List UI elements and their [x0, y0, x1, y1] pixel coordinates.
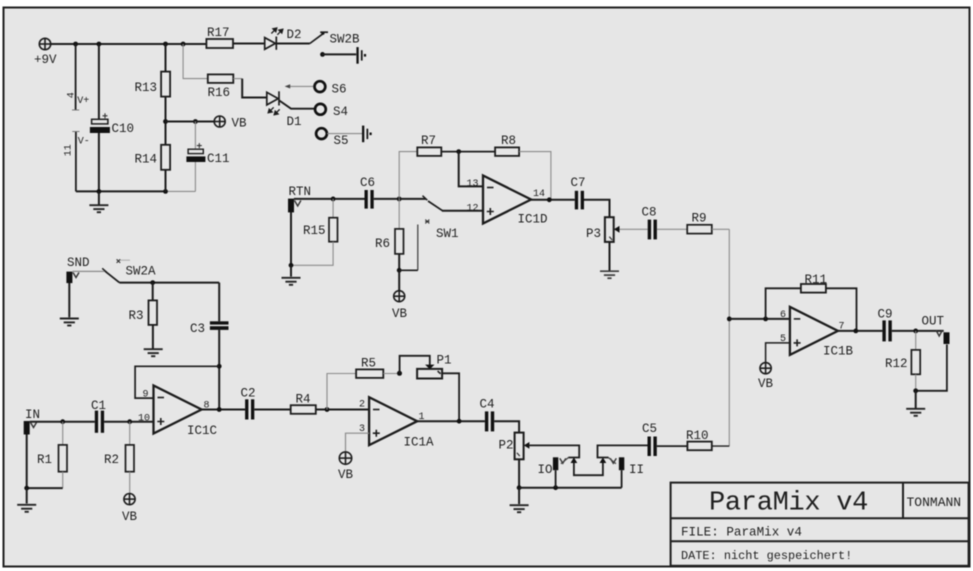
- svg-text:IC1B: IC1B: [823, 345, 854, 359]
- wire R17 to D2: [233, 43, 265, 45]
- switch SW2B: [310, 32, 328, 44]
- wire pin14 out: [531, 199, 575, 201]
- wire P1 to output node: [442, 373, 459, 421]
- S6 leaf arrowhead: [285, 84, 291, 88]
- wire RTN to C6: [294, 198, 365, 200]
- svg-text:R16: R16: [208, 86, 231, 100]
- supply VB (IC1C stage): [124, 494, 135, 505]
- C10 plus mark: [103, 113, 108, 118]
- svg-text:14: 14: [533, 189, 545, 200]
- node junction R5-P1: [397, 371, 402, 376]
- jack II pin: [619, 457, 624, 470]
- supply VB (IC1A stage): [339, 452, 351, 464]
- jack link staple with arrows: [574, 462, 603, 476]
- wire R1 top thin: [62, 422, 64, 445]
- svg-text:OUT: OUT: [922, 315, 945, 329]
- svg-text:IN: IN: [25, 408, 40, 422]
- wire R8 to pin14 thin: [519, 152, 551, 200]
- wire C11 top thin: [194, 122, 196, 150]
- resistor R8: [495, 147, 519, 156]
- node junction bus-IC1B: [727, 317, 732, 322]
- svg-text:P3: P3: [586, 227, 601, 241]
- wire pin1 out: [417, 420, 485, 422]
- svg-text:VB: VB: [122, 510, 138, 524]
- resistor R17: [206, 39, 233, 48]
- svg-text:P2: P2: [499, 439, 514, 453]
- II switch leaf: [609, 458, 616, 464]
- svg-text:DATE: nicht gespeichert!: DATE: nicht gespeichert!: [681, 549, 852, 563]
- node junction VB: [163, 119, 168, 124]
- svg-text:R3: R3: [129, 309, 144, 323]
- wire II branch: [598, 445, 648, 457]
- svg-text:R4: R4: [296, 393, 311, 407]
- svg-text:R15: R15: [303, 224, 326, 238]
- svg-text:C2: C2: [241, 387, 256, 401]
- wire R3 top: [152, 283, 154, 301]
- wire SW1 throw to node: [399, 269, 418, 271]
- capacitor C1: [95, 411, 104, 433]
- wire P2 bottom: [518, 459, 520, 487]
- wire pin12 net: [442, 210, 483, 212]
- ground at R3: [144, 349, 163, 356]
- capacitor C7: [575, 191, 584, 210]
- wire OUT pin down: [916, 345, 947, 391]
- P1 wiper arrowhead: [425, 365, 434, 370]
- svg-text:SW1: SW1: [436, 227, 459, 241]
- wire R16 to D1: [242, 79, 267, 98]
- svg-text:C9: C9: [878, 308, 893, 322]
- svg-text:V+: V+: [77, 96, 89, 107]
- op-amp IC1B: [790, 307, 838, 355]
- svg-text:IC1D: IC1D: [518, 213, 548, 227]
- svg-text:12: 12: [467, 204, 479, 215]
- node junction rail-R13: [163, 42, 168, 47]
- svg-text:C8: C8: [642, 206, 657, 220]
- svg-text:6: 6: [780, 310, 786, 321]
- node junction RTN-R15: [331, 197, 336, 202]
- svg-text:VB: VB: [232, 117, 248, 131]
- ground at OUT: [906, 391, 925, 416]
- IC1A minus mark: [373, 409, 380, 411]
- wire R2 top thin: [129, 422, 131, 445]
- wire V- pin stub: [75, 132, 77, 192]
- wire D1 leaf to S4: [279, 101, 315, 109]
- svg-text:S6: S6: [332, 83, 347, 97]
- wire C8 to R9 thin: [657, 228, 687, 230]
- wire SND pin down: [68, 283, 70, 317]
- wire P3 bottom: [609, 242, 611, 271]
- svg-text:D1: D1: [287, 115, 302, 129]
- potentiometer P1: [417, 369, 442, 379]
- svg-text:R9: R9: [692, 212, 707, 226]
- wire C6 to SW1 node: [374, 198, 400, 200]
- node junction C6-R6-R7: [397, 197, 402, 202]
- svg-text:SW2B: SW2B: [330, 33, 361, 47]
- resistor R15: [329, 218, 338, 242]
- SND pin arrow: [73, 273, 79, 278]
- svg-text:IC1C: IC1C: [187, 424, 217, 438]
- supply VB (IC1D stage): [394, 291, 405, 302]
- OUT pin arrow: [936, 331, 942, 337]
- S6 leaf arrow thin: [289, 85, 313, 87]
- op-amp IC1A: [369, 397, 417, 445]
- wire R16 branch thin: [183, 44, 207, 79]
- wire vertical bus thin: [728, 229, 730, 446]
- svg-text:C10: C10: [112, 122, 135, 136]
- wire C3 top: [218, 283, 220, 322]
- svg-text:II: II: [629, 463, 644, 477]
- wire pin5 to VB: [766, 343, 790, 363]
- switch SW2A: [102, 268, 119, 282]
- node SW2B lower contact: [320, 52, 325, 57]
- diode D2 LED: [265, 37, 277, 50]
- wire jack ground bus: [519, 487, 622, 489]
- IC1D plus mark: [487, 208, 494, 215]
- P2 inner mark: [517, 453, 520, 456]
- resistor R4: [291, 405, 316, 414]
- IC1B plus mark: [794, 339, 801, 346]
- wire D2 to SW2B: [276, 43, 310, 45]
- wire C7 to P3: [584, 200, 610, 217]
- P1 wiper loop: [400, 356, 430, 374]
- wire SW2A to C3: [119, 282, 219, 284]
- resistor R7: [417, 147, 441, 156]
- op-amp IC1D: [483, 176, 531, 224]
- switch SW1: [399, 196, 442, 211]
- ground at IN: [17, 488, 36, 512]
- capacitor C8: [648, 220, 657, 240]
- supply VB (IC1B stage): [760, 363, 771, 374]
- supply +9V: [39, 38, 50, 49]
- P3 inner mark: [609, 237, 612, 240]
- wire C11 bottom thin: [194, 162, 196, 191]
- wire VB stub: [398, 270, 400, 290]
- node junction SW2A-R3: [150, 280, 155, 285]
- svg-text:11: 11: [64, 144, 75, 156]
- svg-text:13: 13: [467, 179, 479, 190]
- svg-text:C6: C6: [360, 176, 375, 190]
- IN pin arrow: [31, 423, 37, 428]
- svg-text:RTN: RTN: [289, 185, 312, 199]
- svg-text:R17: R17: [207, 26, 230, 40]
- wire R12 bottom thin: [915, 374, 917, 391]
- node junction IO-gnd: [553, 485, 558, 490]
- node junction C3-feedback: [217, 364, 222, 369]
- wire pin3 to VB thin: [346, 433, 370, 452]
- node junction RTN-gnd: [289, 263, 294, 268]
- SW1 actuator mark: [425, 220, 429, 224]
- svg-text:4: 4: [67, 92, 78, 98]
- svg-text:C11: C11: [207, 152, 230, 166]
- IC1A plus mark: [373, 430, 380, 437]
- resistor R3: [149, 300, 158, 325]
- resistor R1: [59, 445, 68, 472]
- svg-text:IO: IO: [538, 463, 553, 477]
- svg-text:S4: S4: [333, 105, 348, 119]
- wire R9 to bus thin: [712, 228, 730, 230]
- node junction rail-C10: [97, 42, 102, 47]
- potentiometer P2: [515, 433, 524, 460]
- connector pin OUT: [944, 332, 950, 344]
- svg-text:+9V: +9V: [34, 53, 57, 67]
- wire C10 top: [98, 44, 100, 120]
- node junction P2-gnd: [517, 485, 522, 490]
- wire pin7 out: [838, 330, 883, 332]
- node junction pin14: [547, 197, 552, 202]
- capacitor C10 polarized plates: [92, 119, 108, 124]
- connector pin SND: [66, 272, 72, 284]
- wire IC1C feedback: [135, 366, 219, 398]
- capacitor C11 polarized plates: [188, 149, 203, 153]
- wire II pin down: [621, 470, 623, 488]
- wire C1 to pin13: [104, 421, 153, 423]
- node junction R4-R5: [325, 407, 330, 412]
- svg-text:R12: R12: [885, 357, 908, 371]
- node junction R12-gnd: [913, 388, 918, 393]
- svg-text:C5: C5: [642, 422, 657, 436]
- connector pin RTN: [288, 199, 294, 213]
- wire R16 right thin: [233, 78, 242, 80]
- svg-text:C3: C3: [190, 322, 205, 336]
- svg-text:R5: R5: [361, 357, 376, 371]
- capacitor C9: [882, 320, 891, 341]
- wire IN pin down: [27, 435, 63, 489]
- wire R1 bottom thin: [62, 472, 64, 488]
- ground at SND: [60, 319, 79, 326]
- node junction IN-gnd: [24, 486, 29, 491]
- wire SW1 throw down: [417, 225, 419, 271]
- svg-text:V-: V-: [78, 137, 90, 148]
- P1 inner mark: [438, 371, 441, 374]
- node junction pin1-P1: [457, 419, 462, 424]
- wire SND to SW2A thin: [73, 270, 106, 272]
- svg-text:R14: R14: [135, 153, 158, 167]
- wire R15 top thin: [332, 199, 334, 218]
- pin 4 V+ tick: [72, 109, 79, 111]
- wire V+ pin stub: [75, 44, 77, 110]
- wire R3 bottom: [152, 325, 154, 349]
- D1 emission arrows: [268, 107, 280, 115]
- resistor R10: [687, 442, 711, 451]
- pad S4: [315, 104, 326, 115]
- svg-text:P1: P1: [437, 354, 452, 368]
- wire P2 wiper to jack IO: [529, 445, 579, 457]
- wire R12 top thin: [915, 331, 917, 350]
- node junction C1-R2: [127, 419, 132, 424]
- wire C3 bottom: [218, 330, 220, 410]
- wire pin8 out: [202, 409, 246, 411]
- svg-text:R6: R6: [375, 237, 390, 251]
- svg-text:R2: R2: [104, 453, 119, 467]
- svg-text:D2: D2: [287, 28, 302, 42]
- wire C10 bottom: [98, 133, 100, 192]
- ground (sideways) at SW2B: [356, 47, 366, 64]
- capacitor C2: [245, 399, 254, 419]
- SW2A actuator mark: [117, 259, 121, 263]
- RTN pin arrow: [295, 201, 301, 207]
- P2 wiper arrow: [524, 442, 530, 449]
- svg-text:9: 9: [143, 390, 149, 401]
- resistor R16: [208, 74, 234, 83]
- wire C5 to R10: [657, 445, 688, 447]
- wire ground bus: [76, 190, 166, 192]
- II pin arrow: [610, 458, 616, 463]
- connector pin IN: [24, 421, 30, 435]
- node junction C9-R12: [913, 329, 918, 334]
- node junction R7-R8-pin13: [456, 149, 461, 154]
- node junction R6-SW1-VB: [397, 268, 402, 273]
- wire SW2B to ground: [323, 53, 357, 55]
- svg-text:TONMANN: TONMANN: [907, 495, 962, 510]
- svg-text:R8: R8: [501, 134, 516, 148]
- title block frame: [671, 483, 969, 566]
- SW2A actuator line thin: [121, 259, 131, 261]
- wire R15 bottom thin: [291, 242, 333, 266]
- IC1D minus mark: [487, 187, 494, 189]
- wire C9 to OUT: [892, 330, 944, 332]
- wire R14 bottom: [165, 170, 167, 192]
- C11 plus mark: [197, 143, 202, 148]
- potentiometer P3: [605, 217, 614, 242]
- wire C2 to R4: [254, 409, 290, 411]
- D2 emission arrows: [271, 28, 283, 35]
- ground at P3: [600, 271, 619, 278]
- node junction pin7-R11: [853, 329, 858, 334]
- staple arrowhead right: [600, 457, 607, 463]
- wire RTN down: [290, 212, 292, 265]
- pad S5: [316, 128, 327, 139]
- wire R5 to P1 thin: [383, 373, 399, 375]
- svg-text:SW2A: SW2A: [126, 265, 157, 279]
- node junction rail-R16: [181, 42, 186, 47]
- wire node up to R7 thin: [399, 152, 417, 199]
- pin 11 V- tick: [72, 131, 79, 133]
- wire R6 bottom: [398, 254, 400, 270]
- jack IO pin: [553, 457, 558, 470]
- svg-text:C4: C4: [480, 398, 495, 412]
- ground (sideways) at S5: [362, 126, 372, 143]
- resistor R9: [687, 225, 712, 234]
- ground at RTN: [282, 265, 301, 285]
- pad S6: [315, 81, 326, 92]
- ground GND main: [89, 191, 108, 212]
- resistor R2: [126, 445, 135, 472]
- node junction pin6-R11: [763, 317, 768, 322]
- wire R10 to bus: [712, 445, 730, 447]
- resistor R14: [161, 145, 170, 170]
- wire thin bus extension to C11: [166, 190, 196, 192]
- IC1C plus mark: [157, 418, 164, 425]
- node junction rail-V+: [73, 42, 78, 47]
- wire P3 wiper to C8 thin: [620, 228, 648, 230]
- resistor R6: [395, 229, 404, 254]
- svg-text:ParaMix v4: ParaMix v4: [709, 489, 868, 519]
- svg-text:VB: VB: [338, 468, 354, 482]
- svg-text:R10: R10: [686, 429, 709, 443]
- svg-text:R1: R1: [37, 453, 52, 467]
- node junction gnd-C10: [97, 189, 102, 194]
- IO pin arrow: [560, 458, 566, 463]
- svg-text:R13: R13: [135, 81, 158, 95]
- wire R13 bottom: [165, 97, 167, 145]
- wire R6 top thin: [398, 199, 400, 229]
- wire R11 feedback right: [826, 288, 857, 331]
- capacitor C4: [485, 411, 494, 431]
- svg-text:10: 10: [138, 414, 150, 425]
- wire R13 top: [165, 44, 167, 72]
- wire R11 feedback left: [766, 288, 801, 319]
- wire bus to pin6: [729, 318, 790, 320]
- svg-text:C1: C1: [91, 399, 106, 413]
- capacitor C3: [210, 321, 229, 330]
- node junction IN-R1: [60, 419, 65, 424]
- wire pin13 net: [459, 152, 483, 187]
- svg-text:S5: S5: [334, 134, 349, 148]
- node junction gnd-R14: [163, 189, 168, 194]
- svg-text:SND: SND: [67, 256, 90, 270]
- svg-text:IC1A: IC1A: [404, 436, 435, 450]
- svg-text:VB: VB: [392, 307, 408, 321]
- P3 wiper arrow: [614, 226, 620, 233]
- svg-text:FILE: ParaMix v4: FILE: ParaMix v4: [681, 526, 802, 540]
- supply VB (power section): [214, 116, 225, 127]
- resistor R5: [356, 369, 383, 378]
- ground at P2: [510, 488, 529, 513]
- wire S5 to ground thin: [327, 133, 362, 135]
- capacitor C6: [365, 190, 374, 209]
- node junction VB-C11: [193, 119, 198, 124]
- IC1B minus mark: [794, 318, 801, 320]
- wire VB node: [166, 121, 215, 123]
- diode D1 LED: [267, 91, 279, 105]
- wire R5 branch up thin: [327, 374, 356, 410]
- staple arrowhead left: [571, 457, 578, 463]
- node junction pin8-C3: [217, 407, 222, 412]
- wire IO pin down: [555, 470, 557, 488]
- svg-text:2: 2: [359, 400, 365, 411]
- resistor R13: [161, 72, 170, 97]
- wire IN to C1: [30, 421, 95, 423]
- svg-text:R7: R7: [421, 134, 436, 148]
- wire R7 to R8: [441, 151, 495, 153]
- wire +9V rail: [51, 43, 207, 45]
- resistor R11: [801, 284, 826, 293]
- svg-text:VB: VB: [758, 377, 774, 391]
- wire C4 to P2: [494, 421, 519, 432]
- IC1C minus mark: [158, 397, 165, 399]
- op-amp IC1C: [154, 386, 202, 434]
- wire R4 to IC1A: [316, 409, 369, 411]
- resistor R12: [911, 350, 920, 374]
- IO switch leaf: [561, 458, 568, 464]
- svg-text:C7: C7: [571, 176, 586, 190]
- svg-text:R11: R11: [805, 273, 828, 287]
- capacitor C5: [648, 437, 657, 457]
- wire R2 to VB thin: [129, 472, 131, 494]
